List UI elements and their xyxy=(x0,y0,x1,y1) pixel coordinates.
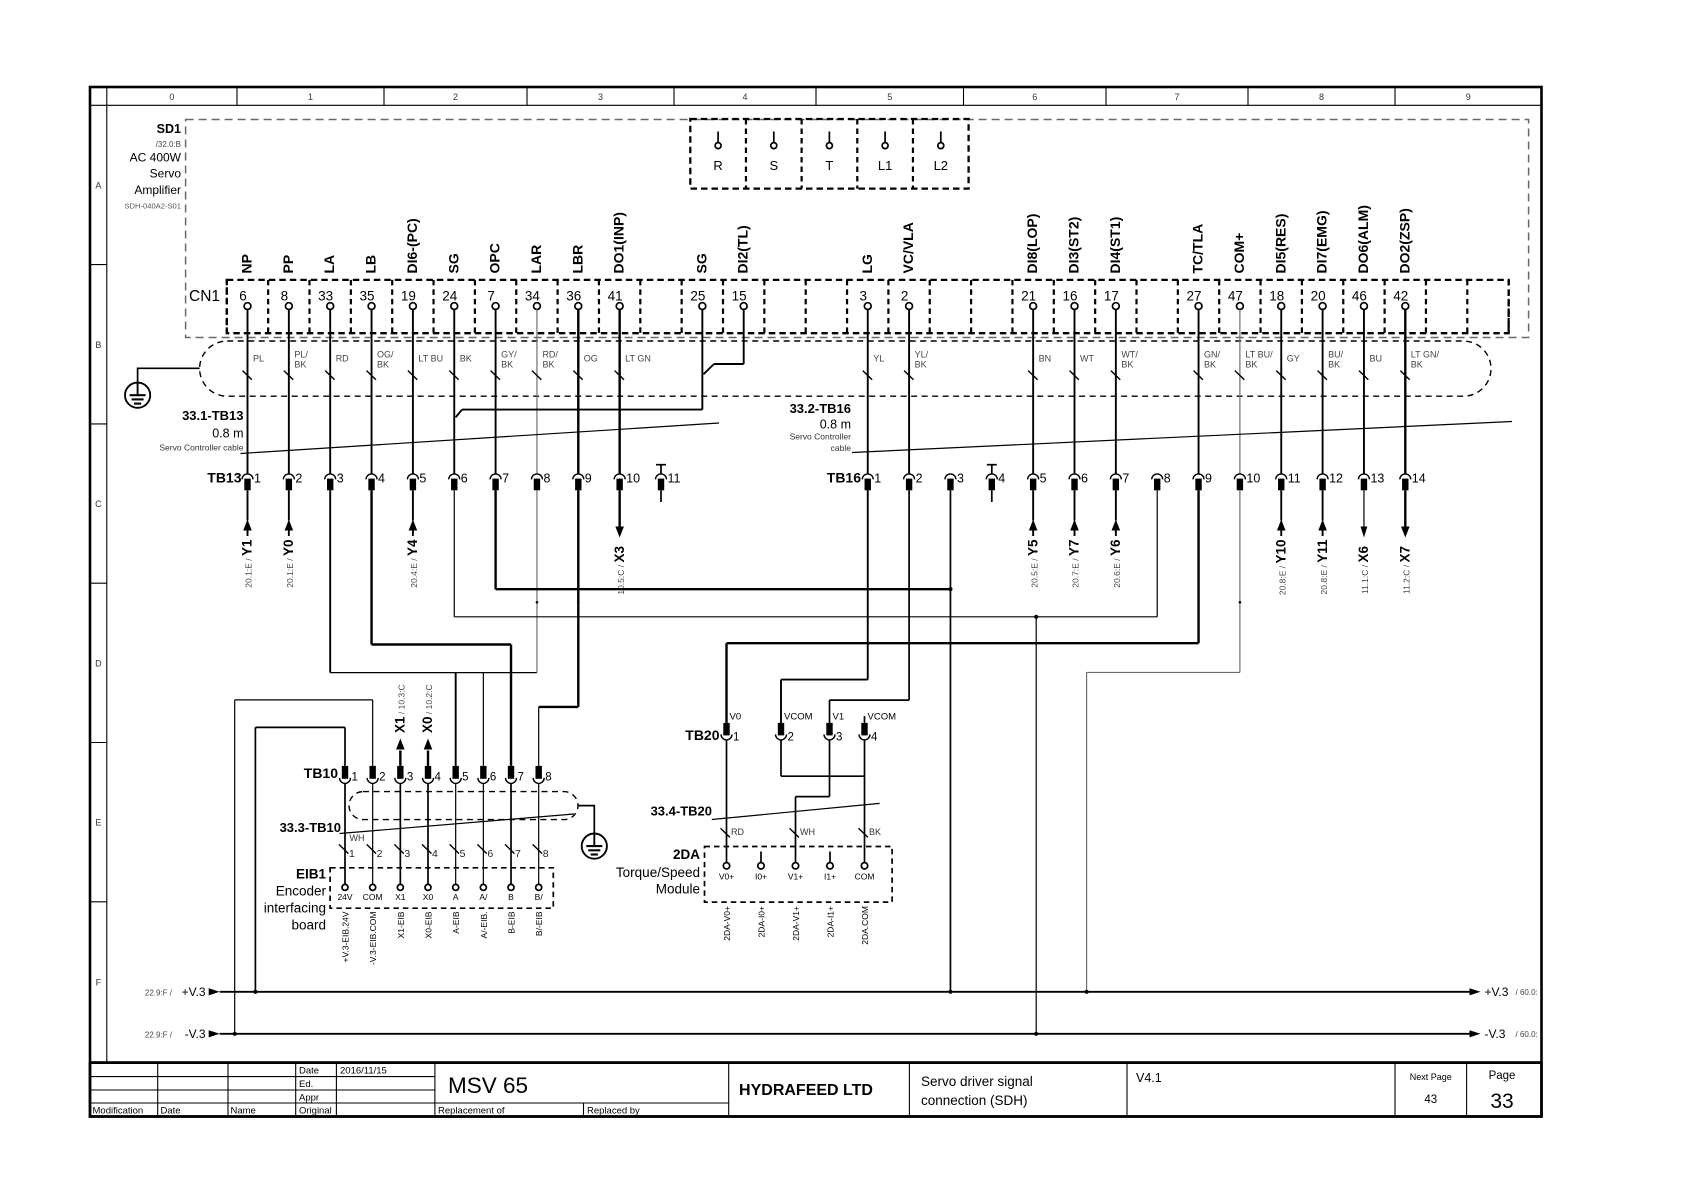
wire CN1 column 3 to terminal (OG//BK) xyxy=(367,309,395,474)
svg-text:8: 8 xyxy=(543,472,550,486)
svg-text:WH: WH xyxy=(800,827,815,837)
svg-text:COM: COM xyxy=(855,872,875,882)
svg-text:3: 3 xyxy=(404,848,410,860)
svg-text:LT GN: LT GN xyxy=(625,354,651,364)
wire LBR: TB13-9 to TB10-8 (B/) xyxy=(539,490,579,766)
EIB1 pin B xyxy=(508,884,514,902)
svg-text:BK: BK xyxy=(501,360,513,370)
wire CN1 column 16 to terminal (YL//BK) xyxy=(904,309,929,474)
CN1 pin 25 (SG) xyxy=(690,253,709,309)
svg-text:D: D xyxy=(95,658,102,668)
tiny node mark TB13-9 xyxy=(577,601,580,604)
svg-text:RD: RD xyxy=(731,827,744,837)
svg-text:0.8 m: 0.8 m xyxy=(212,427,243,441)
EIB1 pin 24V xyxy=(337,884,352,902)
wire CN1 column 2 to terminal (RD) xyxy=(325,309,349,474)
svg-text:/32.0:B: /32.0:B xyxy=(156,140,181,149)
svg-text:AC 400W: AC 400W xyxy=(130,151,182,165)
svg-text:GY/: GY/ xyxy=(501,350,517,360)
svg-text:41: 41 xyxy=(608,289,623,304)
title block xyxy=(90,1063,1542,1117)
-V.3 rail xyxy=(145,1027,1538,1041)
svg-text:Ed.: Ed. xyxy=(299,1079,313,1090)
svg-text:B-EIB: B-EIB xyxy=(507,911,517,934)
wire TB10-1 to EIB1 24V xyxy=(339,783,355,884)
svg-text:BK: BK xyxy=(1328,360,1340,370)
svg-text:BK: BK xyxy=(1121,360,1133,370)
TB13 terminal 6 xyxy=(449,472,468,491)
wire TB10-3 to EIB1 X1 xyxy=(394,783,410,884)
node 24V on +V.3 rail xyxy=(253,990,257,994)
svg-text:BK: BK xyxy=(915,360,927,370)
TB13 terminal 10 xyxy=(614,472,640,491)
CN1 pin 27 (TC/TLA) xyxy=(1187,224,1206,310)
svg-text:4: 4 xyxy=(998,472,1005,486)
wire TB10-4 to EIB1 X0 xyxy=(422,783,438,884)
svg-text:2: 2 xyxy=(453,92,458,102)
TB16 terminal 7 xyxy=(1110,472,1129,491)
svg-text:A/: A/ xyxy=(479,892,488,902)
svg-text:20: 20 xyxy=(1311,289,1326,304)
svg-text:8: 8 xyxy=(545,772,551,784)
signal arrow Y1 (TB13-1) xyxy=(240,490,255,587)
svg-text:2: 2 xyxy=(377,848,383,860)
svg-text:C: C xyxy=(95,499,102,509)
svg-text:43: 43 xyxy=(1424,1094,1437,1106)
svg-text:YL/: YL/ xyxy=(915,350,929,360)
svg-text:F: F xyxy=(96,977,102,987)
ground connection wire from cable shield xyxy=(138,368,200,382)
svg-text:BU/: BU/ xyxy=(1328,350,1344,360)
svg-text:Modification: Modification xyxy=(93,1106,144,1117)
wire TB10-7 to EIB1 B xyxy=(505,783,521,884)
signal arrow Y10 (TB16-11) xyxy=(1273,490,1288,595)
svg-text:34: 34 xyxy=(525,289,541,304)
TB16 terminal 11 xyxy=(1276,472,1301,491)
svg-text:DI2(TL): DI2(TL) xyxy=(735,225,751,273)
svg-text:10: 10 xyxy=(626,472,640,486)
wire CN1 column 24 to terminal (LT BU//BK) xyxy=(1235,309,1273,474)
signal arrow X0 (TB10-4) xyxy=(420,684,435,766)
svg-text:WT: WT xyxy=(1080,354,1094,364)
svg-text:6: 6 xyxy=(239,289,247,304)
EIB1 pin B/ xyxy=(535,884,544,902)
svg-text:PP: PP xyxy=(280,255,296,274)
svg-text:B/-EIB: B/-EIB xyxy=(534,911,544,936)
svg-text:9: 9 xyxy=(585,472,592,486)
CN1 pin 15 (DI2(TL)) xyxy=(732,225,751,309)
TB16 terminal 10 xyxy=(1234,472,1260,491)
node TB16-3 on +V.3 rail xyxy=(948,990,952,994)
svg-text:Page: Page xyxy=(1489,1070,1516,1082)
TB16 terminal 2 xyxy=(904,472,923,491)
svg-text:V0+: V0+ xyxy=(719,872,734,882)
svg-text:16: 16 xyxy=(1062,289,1077,304)
wire CN1 column 6 to terminal (GY//BK) xyxy=(491,309,518,474)
svg-text:B: B xyxy=(508,892,514,902)
svg-text:BK: BK xyxy=(1204,360,1216,370)
svg-text:OPC: OPC xyxy=(487,243,503,273)
svg-text:B: B xyxy=(95,340,101,350)
wire CN1 column 23 to terminal (GN//BK) xyxy=(1194,309,1221,474)
signal arrow Y5 (TB16-5) xyxy=(1025,490,1040,587)
svg-text:1: 1 xyxy=(733,732,739,744)
svg-text:35: 35 xyxy=(360,289,375,304)
wire CN1 column 1 to terminal (PL//BK) xyxy=(284,309,309,474)
svg-text:LT BU: LT BU xyxy=(418,354,443,364)
svg-text:6: 6 xyxy=(461,472,468,486)
wire CN1 pin 15 (DI2/TL) joining SG wire xyxy=(703,309,743,374)
wire TB10-5 to EIB1 A xyxy=(450,783,466,884)
TB16 terminal 5 xyxy=(1028,472,1047,491)
svg-text:PL: PL xyxy=(253,354,264,364)
svg-text:/ 60.0:: / 60.0: xyxy=(1516,1030,1538,1039)
CN1 pin 41 (DO1(INP)) xyxy=(608,212,627,309)
svg-text:DO6(ALM): DO6(ALM) xyxy=(1355,205,1371,273)
node COM on -V.3 rail xyxy=(233,1032,237,1036)
cable diagonal line 33.2-TB16 xyxy=(852,422,1512,453)
svg-text:33.4-TB20: 33.4-TB20 xyxy=(651,804,712,819)
svg-text:2DA.COM: 2DA.COM xyxy=(860,906,870,945)
svg-text:3: 3 xyxy=(859,289,867,304)
TB20 terminal 4 (VCOM) xyxy=(859,712,896,744)
node SG junction xyxy=(1034,615,1038,619)
TB13 terminal 8 xyxy=(531,472,550,491)
svg-text:cable: cable xyxy=(831,443,852,453)
wire -V.3 feed to TB10-2 (COM) xyxy=(235,700,373,1034)
wire +V.3 feed to TB10-1 (24V) xyxy=(255,727,345,991)
EIB1 name labels xyxy=(264,867,327,933)
svg-text:21: 21 xyxy=(1021,289,1036,304)
svg-text:+V.3-EIB.24V: +V.3-EIB.24V xyxy=(341,911,351,962)
svg-text:LT BU/: LT BU/ xyxy=(1245,350,1273,360)
svg-text:V1: V1 xyxy=(833,712,845,723)
signal arrow X6 (TB16-13) xyxy=(1356,490,1371,594)
svg-text:7: 7 xyxy=(1174,92,1179,102)
svg-text:Torque/Speed: Torque/Speed xyxy=(616,865,700,880)
svg-text:12: 12 xyxy=(1329,472,1343,486)
TB13 terminal 2 xyxy=(283,472,302,491)
svg-text:E: E xyxy=(95,818,101,828)
wire CN1 column 7 to terminal (RD//BK) xyxy=(532,309,558,474)
svg-text:5: 5 xyxy=(462,772,468,784)
svg-text:TB10: TB10 xyxy=(304,765,338,781)
wire SG bus: TB13-6 / TB16-8 to -V.3 rail xyxy=(454,490,1157,1034)
terminal R xyxy=(713,132,722,174)
svg-text:2016/11/15: 2016/11/15 xyxy=(340,1066,387,1077)
cable diagonal line 33.4-TB20 xyxy=(712,803,880,819)
svg-text:L2: L2 xyxy=(934,158,948,173)
svg-text:TB20: TB20 xyxy=(685,727,719,743)
svg-text:DO1(INP): DO1(INP) xyxy=(611,212,627,273)
svg-text:V0: V0 xyxy=(730,712,742,723)
svg-text:4: 4 xyxy=(432,848,438,860)
svg-text:18: 18 xyxy=(1269,289,1284,304)
TB10 terminal 6 xyxy=(478,766,496,784)
svg-text:BK: BK xyxy=(377,360,389,370)
svg-text:5: 5 xyxy=(419,472,426,486)
terminal L2 xyxy=(934,132,948,174)
terminal T xyxy=(825,132,833,174)
ground symbol left (PE) xyxy=(125,383,150,408)
CN1 pin 3 (LG) xyxy=(859,254,875,310)
TB13 terminal 1 xyxy=(242,472,261,491)
svg-text:4: 4 xyxy=(378,472,385,486)
svg-text:Date: Date xyxy=(299,1066,319,1077)
svg-text:GY: GY xyxy=(1287,354,1300,364)
svg-text:1: 1 xyxy=(308,92,313,102)
svg-text:YL: YL xyxy=(873,354,884,364)
svg-text:1: 1 xyxy=(352,772,358,784)
wire CN1 column 21 to terminal (WT//BK) xyxy=(1111,309,1138,474)
2DA I0+ stub xyxy=(760,852,762,863)
svg-text:36: 36 xyxy=(566,289,581,304)
svg-text:3: 3 xyxy=(598,92,603,102)
TB10 terminal 8 xyxy=(533,766,551,784)
wire V1: TB20-3 to 2DA V1+ xyxy=(790,740,830,863)
svg-text:2: 2 xyxy=(916,472,923,486)
svg-text:EIB1: EIB1 xyxy=(296,867,327,882)
svg-text:TB16: TB16 xyxy=(827,470,861,486)
TB20 terminal 3 (V1) xyxy=(824,712,844,744)
wire CN1 column 9 to terminal (LT GN) xyxy=(615,309,651,474)
svg-text:BK: BK xyxy=(1411,360,1423,370)
CN1 pin 46 (DO6(ALM)) xyxy=(1352,205,1371,309)
encoder interface board EIB1 dashed box xyxy=(330,868,553,908)
svg-text:8: 8 xyxy=(1164,472,1171,486)
wire CN1 column 19 to terminal (BN) xyxy=(1028,309,1051,474)
svg-text:Servo: Servo xyxy=(150,167,182,181)
wire CN1 pin 25 (SG) joining TB13-6 wire xyxy=(456,309,703,417)
svg-text:8: 8 xyxy=(281,289,289,304)
CN1 pin 17 (DI4(ST1)) xyxy=(1104,217,1123,310)
svg-text:-V.3: -V.3 xyxy=(1485,1027,1506,1041)
svg-text:13: 13 xyxy=(1370,472,1384,486)
SD1 name labels xyxy=(124,122,181,211)
tiny node mark TB16-10 xyxy=(1239,601,1242,604)
svg-text:L1: L1 xyxy=(878,158,892,173)
svg-text:DI8(LOP): DI8(LOP) xyxy=(1024,214,1040,274)
+V.3 rail xyxy=(145,985,1538,999)
svg-text:I0+: I0+ xyxy=(755,872,767,882)
TB16 terminal 12 xyxy=(1317,472,1343,491)
svg-text:NP: NP xyxy=(239,254,255,273)
svg-text:33: 33 xyxy=(1490,1090,1513,1113)
TB16 terminal 9 xyxy=(1193,472,1212,491)
svg-text:2DA-V0+: 2DA-V0+ xyxy=(722,906,732,941)
CN1 pin 20 (DI7(EMG)) xyxy=(1311,211,1330,310)
svg-text:OG/: OG/ xyxy=(377,350,394,360)
svg-text:MSV 65: MSV 65 xyxy=(448,1073,528,1098)
svg-text:GN/: GN/ xyxy=(1204,350,1221,360)
wire VC/VLA: TB16-2 to TB20-3 xyxy=(830,490,910,723)
svg-text:Module: Module xyxy=(656,882,700,897)
svg-text:2: 2 xyxy=(788,732,794,744)
svg-text:WT/: WT/ xyxy=(1121,350,1138,360)
wire CN1 column 25 to terminal (GY) xyxy=(1276,309,1300,474)
svg-text:11: 11 xyxy=(668,472,681,486)
svg-text:1: 1 xyxy=(254,472,261,486)
TB20-4 upper stub xyxy=(864,716,866,723)
2DA pin V1+ xyxy=(788,863,803,882)
svg-text:+V.3: +V.3 xyxy=(182,985,206,999)
CN1 pin 36 (LBR) xyxy=(566,245,585,310)
svg-text:8: 8 xyxy=(1319,92,1324,102)
torque/speed module 2DA dashed box xyxy=(705,847,893,903)
svg-text:9: 9 xyxy=(1205,472,1212,486)
svg-text:Servo Controller cable: Servo Controller cable xyxy=(159,443,243,453)
svg-text:24: 24 xyxy=(442,289,458,304)
svg-text:DI6-(PC): DI6-(PC) xyxy=(404,218,420,273)
svg-text:3: 3 xyxy=(957,472,964,486)
svg-text:4: 4 xyxy=(871,732,878,744)
svg-text:/ 60.0:: / 60.0: xyxy=(1516,988,1538,997)
svg-text:connection (SDH): connection (SDH) xyxy=(921,1093,1028,1108)
TB16 terminal 3 xyxy=(945,472,964,491)
svg-text:6: 6 xyxy=(1032,92,1037,102)
svg-text:33.1-TB13: 33.1-TB13 xyxy=(182,408,243,423)
TB10 terminal 5 xyxy=(450,766,468,784)
tiny node mark TB13-8 xyxy=(536,601,539,604)
TB10 terminal 3 xyxy=(395,766,413,784)
CN1 pin 2 (VC/VLA) xyxy=(900,222,916,309)
wire CN1 column 0 to terminal (PL) xyxy=(243,309,265,474)
svg-text:V1+: V1+ xyxy=(788,872,803,882)
svg-text:22.9:F /: 22.9:F / xyxy=(145,989,173,998)
node COM+ on +V.3 rail xyxy=(1085,990,1089,994)
cable diagonal line 33.3-TB10 xyxy=(340,814,575,834)
TB10 terminal 2 xyxy=(367,766,385,784)
cable shield oval 33.1-TB13 / 33.2-TB16 xyxy=(200,341,1491,396)
wire VCOM: TB20-2/TB20-4 to 2DA COM xyxy=(781,740,881,863)
svg-text:-V.3: -V.3 xyxy=(185,1027,206,1041)
svg-text:SG: SG xyxy=(445,253,461,273)
svg-text:Date: Date xyxy=(161,1106,181,1117)
svg-text:42: 42 xyxy=(1393,289,1408,304)
svg-text:LA: LA xyxy=(321,255,337,274)
svg-text:Next Page: Next Page xyxy=(1410,1072,1452,1082)
svg-text:BN: BN xyxy=(1039,354,1052,364)
svg-text:TC/TLA: TC/TLA xyxy=(1190,224,1206,274)
cable diagonal line 33.1-TB13 xyxy=(241,423,720,454)
wire V0: TB20-1 to 2DA V0+ xyxy=(721,740,745,863)
signal arrow X7 (TB16-14) xyxy=(1398,490,1413,594)
wire V0: TB16-9 to TB20-1 xyxy=(727,490,1199,723)
svg-text:2: 2 xyxy=(901,289,909,304)
svg-text:LT GN/: LT GN/ xyxy=(1411,350,1440,360)
signal arrow Y11 (TB16-12) xyxy=(1315,490,1330,594)
signal arrow Y0 (TB13-2) xyxy=(281,490,296,587)
svg-text:A-EIB: A-EIB xyxy=(451,911,461,934)
2DA pin V0+ xyxy=(719,863,734,882)
EIB1 pin X0 xyxy=(423,884,434,902)
svg-text:7: 7 xyxy=(502,472,509,486)
svg-text:S: S xyxy=(769,158,778,173)
svg-text:3: 3 xyxy=(407,772,413,784)
ground connection from TB10 shield oval xyxy=(578,806,594,834)
svg-text:DI3(ST2): DI3(ST2) xyxy=(1066,217,1082,274)
svg-text:2: 2 xyxy=(379,772,385,784)
wire LB: TB13-4 to TB10-7 (B) xyxy=(372,490,511,766)
svg-text:RD: RD xyxy=(336,354,349,364)
TB13 terminal 4 xyxy=(366,472,385,491)
svg-text:COM: COM xyxy=(363,892,383,902)
svg-text:2DA-I0+: 2DA-I0+ xyxy=(757,906,767,937)
svg-text:9: 9 xyxy=(1466,92,1471,102)
svg-text:17: 17 xyxy=(1104,289,1119,304)
servo amplifier SD1 dashed outline xyxy=(186,120,1529,338)
CN1 pin 42 (DO2(ZSP)) xyxy=(1393,208,1412,309)
wire TB10-8 to EIB1 B/ xyxy=(533,783,549,884)
svg-text:Servo Controller: Servo Controller xyxy=(790,432,852,442)
terminal S xyxy=(769,132,778,174)
svg-text:A: A xyxy=(95,180,101,190)
svg-text:46: 46 xyxy=(1352,289,1367,304)
svg-text:BK: BK xyxy=(542,360,554,370)
svg-text:5: 5 xyxy=(887,92,892,102)
svg-text:Appr: Appr xyxy=(299,1093,319,1104)
svg-text:DI7(EMG): DI7(EMG) xyxy=(1314,211,1330,274)
svg-text:VCOM: VCOM xyxy=(784,712,813,723)
TB16 terminal 8 xyxy=(1152,472,1171,491)
svg-text:Original: Original xyxy=(299,1106,332,1117)
TB16 terminal 4 xyxy=(986,472,1005,491)
TB20 terminal 1 (V0) xyxy=(721,712,741,744)
node SG on -V.3 rail xyxy=(1034,1032,1038,1036)
svg-text:15: 15 xyxy=(732,289,747,304)
svg-text:BK: BK xyxy=(294,360,306,370)
wire TB10-6 to EIB1 A/ xyxy=(477,783,493,884)
svg-text:X0: X0 xyxy=(423,892,434,902)
TB16 terminal 13 xyxy=(1358,472,1384,491)
signal arrow Y4 (TB13-5) xyxy=(405,490,420,587)
svg-text:4: 4 xyxy=(742,92,747,102)
CN1 pin 33 (LA) xyxy=(318,255,337,310)
TB13 terminal 11 xyxy=(656,472,681,491)
TB13 terminal 9 xyxy=(573,472,592,491)
2DA pin COM xyxy=(855,863,875,882)
svg-text:-V.3-EIB.COM: -V.3-EIB.COM xyxy=(368,912,378,966)
svg-text:Amplifier: Amplifier xyxy=(134,183,181,197)
svg-text:SD1: SD1 xyxy=(157,122,181,136)
EIB1 pin COM xyxy=(363,884,383,902)
svg-text:LAR: LAR xyxy=(528,245,544,274)
svg-text:1: 1 xyxy=(874,472,881,486)
wire TB10-2 to EIB1 COM xyxy=(367,783,383,884)
TB20 terminal 2 (VCOM) xyxy=(776,712,813,744)
TB13 terminal 5 xyxy=(407,472,426,491)
svg-text:HYDRAFEED LTD: HYDRAFEED LTD xyxy=(739,1082,873,1099)
svg-text:1: 1 xyxy=(349,848,355,860)
signal arrow Y7 (TB16-6) xyxy=(1067,490,1082,587)
svg-text:X1-EIB: X1-EIB xyxy=(396,911,406,938)
svg-text:5: 5 xyxy=(1040,472,1047,486)
EIB1 pin A/ xyxy=(479,884,488,902)
svg-text:+V.3: +V.3 xyxy=(1485,985,1509,999)
svg-text:3: 3 xyxy=(337,472,344,486)
svg-text:WH: WH xyxy=(350,833,365,843)
wire CN1 column 20 to terminal (WT) xyxy=(1070,309,1095,474)
svg-text:4: 4 xyxy=(435,772,442,784)
svg-text:22.9:F /: 22.9:F / xyxy=(145,1031,173,1040)
svg-text:33.3-TB10: 33.3-TB10 xyxy=(280,820,341,835)
wire LG: TB16-1 to TB20-2 xyxy=(781,490,868,723)
2DA pin I0+ xyxy=(755,863,767,882)
signal arrow X1 (TB10-3) xyxy=(393,684,408,766)
TB10 terminal 4 xyxy=(423,766,442,784)
svg-text:24V: 24V xyxy=(337,892,352,902)
svg-text:0: 0 xyxy=(169,92,174,102)
